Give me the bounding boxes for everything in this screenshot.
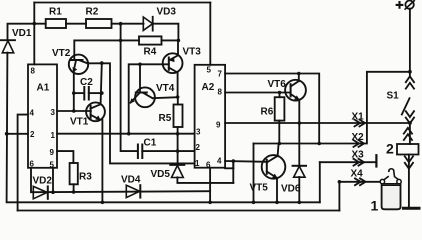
diode VD2 bbox=[33, 186, 47, 198]
svg-text:3: 3 bbox=[51, 108, 56, 117]
svg-text:2: 2 bbox=[386, 141, 394, 157]
svg-text:X2: X2 bbox=[352, 132, 365, 143]
node junction VT3 base row at VT4 lead bbox=[138, 63, 142, 67]
wire VT5 collector riser to X2 wire bbox=[278, 144, 279, 157]
wire VD3 to corner and riser down to R4 right node bbox=[153, 24, 179, 41]
svg-text:1: 1 bbox=[195, 159, 200, 168]
node junction S1 bottom on X1 wire bbox=[408, 121, 412, 125]
svg-text:1: 1 bbox=[51, 131, 56, 140]
wire X2 row y=143.5 from corner x=253.5 to X2 chevron corner bbox=[254, 72, 410, 144]
svg-text:VD1: VD1 bbox=[12, 28, 32, 39]
svg-text:7: 7 bbox=[218, 70, 223, 79]
svg-text:VD2: VD2 bbox=[33, 176, 53, 187]
diode VD3 bbox=[143, 17, 152, 30]
wire X3 riser corner at right end of wire1 bbox=[319, 162, 321, 202]
resistor R3 bbox=[70, 163, 78, 184]
svg-text:1: 1 bbox=[371, 198, 379, 214]
wire R4 row y=40.4 from VT2 base corner to R4 bbox=[74, 40, 139, 60]
wire VT4 base lead riser bbox=[139, 64, 141, 92]
svg-text:VT6: VT6 bbox=[268, 79, 287, 90]
terminal end bar bottom right bbox=[403, 207, 419, 210]
node junction VT4 collector & VT3 collector & R5 bbox=[176, 95, 180, 99]
wire A1 pin3 to VT1 base bbox=[57, 110, 91, 112]
wire riser x=233.3 pin4 node down to VD5 row bbox=[232, 161, 234, 183]
node junction VD6 on wire1 bbox=[298, 201, 302, 205]
node junction C2 right on VT1 collector riser bbox=[100, 91, 104, 95]
wire A2 pin4 to VT5 base bbox=[225, 160, 267, 163]
resistor R1 bbox=[46, 19, 66, 28]
wire A1 pin4 corner left and down to bottom wire2 bbox=[18, 115, 28, 211]
wire A2 pin9 to X1 and S1 bottom node bbox=[225, 122, 410, 124]
wire VT6 collector riser to pin7 wire bbox=[298, 74, 300, 82]
node junction at x=178.4 y=40.4 bbox=[177, 39, 181, 43]
svg-text:2: 2 bbox=[196, 143, 201, 152]
svg-text:VD6: VD6 bbox=[281, 184, 301, 195]
svg-text:VT1: VT1 bbox=[70, 117, 89, 128]
wire VT3 collector down to R5 node bbox=[177, 72, 179, 97]
wire coil bottom down to end bar bbox=[408, 155, 410, 208]
connector X2 chevron bbox=[354, 140, 365, 147]
svg-text:8: 8 bbox=[218, 88, 223, 97]
transistor VT6 bbox=[285, 80, 306, 101]
wire A2 bottom-right stub bbox=[225, 167, 233, 169]
svg-text:VT5: VT5 bbox=[250, 183, 269, 194]
wire S1 node down to coil box bbox=[409, 123, 411, 144]
wire stub into S1 bbox=[409, 72, 411, 77]
svg-text:VD5: VD5 bbox=[151, 169, 171, 180]
wire R3 bottom stub to diode row bbox=[73, 184, 75, 192]
svg-text:VT3: VT3 bbox=[183, 47, 202, 58]
transistor VT1 bbox=[86, 102, 105, 121]
node junction x=128.7 on pin1-pin3 wire bbox=[127, 132, 131, 136]
transistor VT3 bbox=[163, 53, 183, 73]
ground wire2 bottom y=210.5 from stub x=17.6 to X4 riser bbox=[18, 210, 340, 212]
node junction at x=120.6 y=23.7 bbox=[119, 22, 123, 26]
IC A1 box bbox=[28, 64, 57, 167]
connector X3 contact bar bbox=[375, 155, 377, 166]
svg-text:8: 8 bbox=[31, 67, 36, 76]
wire riser x=253.5 from X2 wire down to ground wire1 bbox=[253, 144, 255, 203]
wire X4 row y=181.8 to spark plug knob bbox=[339, 181, 381, 183]
node junction X4 riser tee bbox=[338, 180, 342, 184]
wire VD5 anode down corner right to riser x=233.3 bbox=[177, 177, 233, 183]
connector X1 chevron bbox=[355, 120, 366, 127]
wire riser x=210.3 top bus into A2 top (pin 5) bbox=[209, 3, 211, 65]
wire VT5 emitter down to ground wire1 bbox=[276, 178, 278, 203]
svg-text:X4: X4 bbox=[351, 169, 364, 180]
node junction VD5 riser on pin4 wire bbox=[232, 159, 236, 163]
wire VT2 collector to right, node, corner down to A2 pin1 riser bbox=[88, 63, 195, 163]
power terminal +circle at top right bbox=[405, 1, 413, 9]
svg-text:R1: R1 bbox=[49, 7, 62, 18]
node junction pin6 riser on wire1 bbox=[208, 201, 212, 205]
node junction pin5 riser on diode row bbox=[51, 190, 55, 194]
wire A1 pin2 to VD1 line bbox=[7, 133, 28, 135]
svg-text:5: 5 bbox=[207, 66, 212, 75]
node junction VT2 emitter line on pin3 wire bbox=[72, 109, 76, 113]
node junction VT6 collector on pin7 wire bbox=[297, 72, 301, 76]
node junction x=319.2 on X2 wire bbox=[317, 142, 321, 146]
wire A1 pin6 riser down to VD2 bbox=[31, 168, 33, 192]
svg-text:3: 3 bbox=[196, 128, 201, 137]
wire VT1 collector riser bbox=[101, 63, 102, 104]
node junction VT5 collector R6 on X2 wire bbox=[278, 142, 282, 146]
node junction at x=34.3 y=23.5 bbox=[33, 22, 37, 26]
wire riser x=34.3 top bus to node at y=23.5 and into A1 top (pin 8) bbox=[33, 3, 35, 65]
diode VD1 bbox=[1, 39, 16, 41]
resistor R2 bbox=[86, 19, 112, 28]
resistor R5 bbox=[177, 97, 179, 105]
svg-text:9: 9 bbox=[50, 148, 55, 157]
svg-text:R4: R4 bbox=[144, 47, 157, 58]
svg-text:9: 9 bbox=[216, 121, 221, 130]
svg-text:C1: C1 bbox=[144, 138, 157, 149]
svg-text:5: 5 bbox=[50, 161, 55, 170]
capacitor C2 bbox=[74, 92, 84, 94]
node junction at x=120.6 y=40.4 bbox=[119, 39, 123, 43]
svg-text:6: 6 bbox=[206, 161, 211, 170]
resistor R4 bbox=[139, 36, 162, 44]
node junction R6 top on pin8 wire bbox=[278, 91, 282, 95]
node junction VT1 emitter on wire1 bbox=[101, 201, 105, 205]
connector X3 chevron bbox=[354, 159, 365, 166]
wire A2 pin7 to corner riser x=319.2 bbox=[225, 74, 319, 144]
diode VD5 bbox=[170, 164, 184, 166]
svg-text:4: 4 bbox=[217, 157, 222, 166]
wire X4 riser from wire2 up to X4 row bbox=[338, 182, 340, 211]
node junction VD1 line with A1 pin2 wire bbox=[5, 132, 9, 136]
svg-text:VD4: VD4 bbox=[121, 175, 141, 186]
svg-text:6: 6 bbox=[30, 160, 35, 169]
svg-text:4: 4 bbox=[30, 109, 35, 118]
wire A1 pin5 riser down to diode row bbox=[52, 168, 54, 192]
wire X3 row y=162.2 to contact bar bbox=[320, 161, 376, 163]
svg-text:C2: C2 bbox=[80, 77, 93, 88]
wire VT6 emitter down through X1 X2 to VD6 and ground bbox=[298, 100, 300, 167]
wire VT2 emitter vertical down to pin3 wire bbox=[73, 72, 75, 111]
wire R5 bottom down through nodes to VD5 bbox=[177, 127, 179, 165]
wire A1 pin1 long wire to A2 pin3 bbox=[57, 133, 195, 135]
node junction at x=101.8 y=63.1 bbox=[100, 61, 104, 65]
wire top bus from A1 pin8 riser to A2 pin5 riser bbox=[34, 2, 210, 4]
svg-text:R3: R3 bbox=[79, 172, 92, 183]
wire R4 right to node x=178.4 bbox=[162, 39, 179, 41]
transistor VT4 bbox=[135, 87, 155, 107]
node junction VT5 emitter on wire1 bbox=[275, 201, 279, 205]
connector chevrons above S1 bbox=[406, 76, 414, 88]
node junction x=253.5 on wire1 bbox=[252, 201, 256, 205]
wire R1 to R2 bbox=[66, 23, 86, 25]
wire VT3 base row y=64.3 corner from x=128.7 bbox=[129, 64, 169, 133]
node junction R5 line on C1 row bbox=[176, 149, 180, 153]
svg-text:X1: X1 bbox=[352, 112, 365, 123]
svg-text:R5: R5 bbox=[159, 113, 172, 124]
power terminal plus sign bbox=[396, 1, 404, 9]
svg-text:A2: A2 bbox=[202, 82, 215, 93]
transistor VT5 bbox=[262, 155, 286, 179]
wire A2 pin8 to VT6 base bbox=[225, 92, 291, 94]
diode VD4 bbox=[126, 185, 139, 197]
connector X4 chevron bbox=[355, 178, 366, 185]
wire VD6 anode down to ground wire1 bbox=[298, 177, 300, 202]
node junction R3 on diode row bbox=[72, 190, 76, 194]
wire from terminal down to S1 node bbox=[409, 9, 411, 72]
wire main top rail y=23.7 from VD1 corner to R1 bbox=[8, 24, 46, 40]
svg-text:R6: R6 bbox=[261, 107, 274, 118]
svg-text:2: 2 bbox=[30, 130, 35, 139]
node junction R5 line on pin1-pin3 wire bbox=[176, 132, 180, 136]
IC A2 box bbox=[195, 65, 226, 168]
svg-text:R2: R2 bbox=[86, 7, 99, 18]
diode row: wire from VD2 to VD4 to A2 pin6 riser bbox=[33, 191, 210, 192]
ignition coil box 2 bbox=[397, 144, 419, 155]
svg-text:S1: S1 bbox=[387, 91, 400, 102]
wire VT4 collector to R5 node bbox=[153, 97, 178, 98]
capacitor C1 bbox=[137, 145, 139, 159]
wire vertical x=120.6 from top rail down to C1 jog bbox=[121, 24, 138, 151]
connector chevrons above coil bbox=[404, 128, 412, 140]
wire A2 pin6 riser down to ground wire1 bbox=[209, 168, 211, 203]
wire VT3 emitter lead from node down into circle bbox=[177, 40, 179, 54]
node junction top of S1 branch bbox=[408, 70, 412, 74]
wire R6 top stub bbox=[279, 93, 281, 98]
node junction VT2 emitter line on C2 row bbox=[72, 91, 76, 95]
resistor R6 bbox=[275, 97, 285, 120]
connector chevrons below S1 bbox=[406, 111, 414, 123]
svg-text:A1: A1 bbox=[37, 83, 50, 94]
node junction VT6 emitter line on X1 wire bbox=[298, 121, 302, 125]
diode VD6 bbox=[293, 165, 306, 167]
svg-text:X3: X3 bbox=[352, 150, 365, 161]
svg-text:VT2: VT2 bbox=[52, 48, 71, 59]
svg-text:VT4: VT4 bbox=[156, 83, 175, 94]
wire R6 bottom down to X2 wire bbox=[278, 121, 280, 144]
spark plug 1 bbox=[384, 169, 399, 180]
transistor VT2 bbox=[69, 55, 88, 74]
switch S1 lever bbox=[402, 98, 410, 114]
svg-text:VD3: VD3 bbox=[157, 7, 177, 18]
wire VD1 vertical down left side to bottom corner bbox=[7, 53, 320, 203]
wire A1 pin9 corner down to R3 bbox=[57, 151, 73, 163]
connector chevrons below coil bbox=[405, 156, 413, 168]
wire R2 to VD3 bbox=[112, 23, 144, 25]
wire VT1 emitter down to ground wire1 bbox=[101, 120, 103, 203]
